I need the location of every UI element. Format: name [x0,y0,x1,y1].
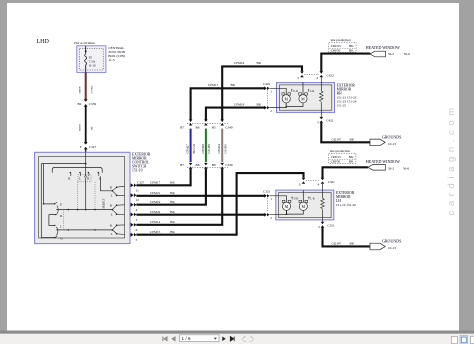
late production box bottom [329,149,356,164]
CJB inner dashed box [80,48,104,70]
heater wire to pin5 [322,209,324,221]
svg-text:CRD13: CRD13 [331,155,341,159]
heater resistor RH [319,91,323,101]
grounds pentagon RH [370,139,385,146]
wire CPM28 GN-BN (green) [205,129,207,162]
connector C321 pin5 chevrons [321,222,325,228]
svg-text:11: 11 [136,188,140,192]
svg-text:CRD15: CRD15 [331,44,341,48]
L contact [54,225,55,226]
motor M3 lead from pin1 [270,196,287,202]
svg-text:L-R: L-R [310,90,314,93]
svg-text:CPM19: CPM19 [150,200,161,204]
svg-text:151-19 151-26: 151-19 151-26 [336,203,356,207]
svg-text:B6: B6 [196,126,200,130]
svg-text:CPM14: CPM14 [150,220,161,224]
wire pin4 to heated window LH [323,167,368,178]
fuse F5 symbol [85,54,87,65]
svg-text:C339: C339 [225,163,232,167]
heated window pentagon top [370,51,385,57]
svg-text:late production: late production [330,149,350,153]
svg-text:BK: BK [170,220,175,224]
svg-text:B5: B5 [212,126,216,130]
switch internal feed wire [85,152,87,175]
svg-text:M: M [285,97,289,101]
connector C339 dashed line [187,166,228,168]
wire w1 CPM17 to blue riser [136,169,190,185]
wire pin5 to ground [321,123,370,143]
svg-text:BK: BK [170,200,175,204]
next page button [222,337,225,342]
RH mirror inner box [279,85,331,110]
svg-text:BU-GN: BU-GN [192,143,196,153]
LH mirror outer box [276,190,334,220]
svg-text:GROUNDS: GROUNDS [382,239,401,244]
rotate cw disabled icon [250,336,254,342]
svg-text:B8: B8 [196,163,200,167]
dropdown arrow [214,338,217,340]
wire fuse to box bottom [85,65,87,73]
svg-text:BK: BK [231,83,236,87]
wire CPM14 BK to RH pin3 [222,66,302,120]
motor M2 RH left-right [299,93,308,103]
first page button [162,337,164,342]
connector C339 B4 chevrons [84,99,88,102]
C321 top dashed link [306,180,321,182]
wire into fuse [85,46,87,54]
svg-text:C422: C422 [327,74,334,78]
U-D arc [57,206,59,215]
wire w5 CPM14 to gray riser [136,169,222,225]
svg-text:I: I [60,224,61,228]
svg-text:BK: BK [349,44,354,48]
motor M1 direction legend [291,89,292,92]
svg-text:BK: BK [350,137,355,141]
two-page layout icon selected [460,336,468,344]
wire right contact down to row [100,176,112,191]
select dashed vertical [63,210,65,230]
svg-text:C422: C422 [326,119,333,123]
svg-text:12: 12 [136,198,140,202]
prev page button [172,337,175,342]
rotate ccw disabled icon [243,336,247,342]
svg-text:CPM15: CPM15 [150,230,161,234]
D link wire [49,215,56,226]
page number field [180,335,220,342]
dashed coupler rect [78,175,91,182]
svg-text:L: L [111,232,113,236]
svg-text:BK: BK [350,241,355,245]
central junction box CJB outer box [77,46,106,73]
pivot feed wire [85,177,87,209]
RH mirror outer box [277,83,335,113]
svg-text:CPM14: CPM14 [234,61,245,65]
D contact [55,214,56,215]
wire into switch [85,149,87,152]
wire w3 CPM19 to green riser [136,169,206,205]
connector C321 pin1 chevrons [264,194,269,217]
svg-text:CPM24: CPM24 [150,210,161,214]
svg-text:B4: B4 [78,102,82,106]
connector C422 pin5 chevrons [320,117,324,123]
connector C422 pin1 chevrons [264,86,269,109]
wire SBB06 GY-RD (dark red) [85,72,87,101]
LH mirror inner box [279,192,331,217]
dot at U feed [43,203,45,205]
chevrons at switch outputs C327 [131,183,137,236]
connector C422 top pin3 chevrons [300,71,323,77]
toolbar bar [0,334,474,344]
motor M4 lead from pin3 [302,191,304,203]
svg-text:10-13: 10-13 [388,246,396,250]
late production box top [329,38,356,53]
motor M1 lead from pin1 [270,88,287,94]
U contact [55,202,58,204]
rocker bracket [52,167,102,172]
motor M3 LH up-down [282,200,291,210]
svg-text:BK: BK [349,49,354,53]
heater resistor LH [321,198,325,208]
svg-text:1 / 6: 1 / 6 [182,336,191,341]
svg-text:B7: B7 [180,126,184,130]
wire CPM27 BU-GN (blue) [190,129,192,162]
svg-text:CRP50: CRP50 [331,160,341,164]
wire pin4 to heated window [321,54,370,72]
svg-text:BK: BK [170,191,175,195]
svg-text:CPM17: CPM17 [208,83,219,87]
motor M3 direction legend [291,197,292,200]
svg-text:CPM19: CPM19 [234,102,245,106]
right row contacts: three commons with diagonals [112,187,116,233]
svg-text:GY-RD: GY-RD [90,86,93,94]
svg-text:CRP50: CRP50 [331,49,341,53]
motor M1 RH up-down [282,93,291,103]
C422 top dashed link [304,73,319,75]
svg-text:F: F [80,145,82,149]
svg-text:C339: C339 [89,102,97,106]
rail dots [68,209,70,211]
heated element wire from pin4 [322,184,324,198]
connector C327 F chevrons [84,142,88,145]
rail 1 [56,209,112,211]
svg-text:C422: C422 [263,82,270,86]
motor M2 lead bottom [286,103,303,108]
grounds pentagon LH [370,243,385,250]
svg-text:BK: BK [257,102,262,106]
svg-text:GN-BN: GN-BN [207,143,211,153]
rocker pivot tip [84,175,87,177]
svg-text:56-2: 56-2 [388,52,394,56]
svg-text:GD147: GD147 [332,137,342,141]
svg-text:CPM21: CPM21 [150,191,161,195]
wire SBB07 BK [85,107,87,144]
svg-text:late production: late production [331,38,351,42]
motor M2 direction legend [308,89,309,92]
connector C340 dashed line [187,122,228,124]
svg-text:BK: BK [170,210,175,214]
svg-text:CPM17: CPM17 [150,180,161,184]
svg-text:56-2: 56-2 [388,167,394,171]
svg-text:C321: C321 [328,180,335,184]
C321 left dashed link [266,198,268,212]
svg-text:SBB07: SBB07 [79,123,82,131]
svg-text:10-13: 10-13 [388,142,396,146]
svg-text:B7: B7 [180,163,184,167]
svg-text:cardiagn.com: cardiagn.com [446,103,457,215]
dashed link verticals [78,182,96,210]
svg-text:SELECT: SELECT [103,198,106,209]
svg-text:C327: C327 [137,180,144,184]
svg-text:B9: B9 [212,163,216,167]
page bottom shadow band [0,331,474,334]
svg-text:56-6: 56-6 [404,52,410,56]
heated element wire from pin4 [320,78,322,92]
svg-text:151-25: 151-25 [337,104,347,108]
svg-text:U-D: U-D [293,90,298,93]
last page button [230,337,234,342]
internal horizontal wire [41,163,85,165]
svg-text:L-R: L-R [310,197,314,200]
svg-text:BK: BK [349,160,354,164]
exterior mirror control switch outer box [35,152,130,243]
six stub dots and letters R/L [116,186,118,234]
motor M3 lead bottom from pin2 [270,210,287,214]
svg-text:BK: BK [349,155,354,159]
wire CPM34 GY-BN (gray) [221,129,223,162]
motor M1 lead bottom from pin2 [270,103,287,108]
wire w4 CPM24 to LH pin2 [136,214,264,216]
svg-text:L: L [111,194,113,198]
svg-text:11-5: 11-5 [108,58,115,62]
connector C339 chevrons on risers [189,163,224,169]
L-G arc [56,227,58,236]
switch inner box [39,157,125,239]
svg-text:C321: C321 [327,224,334,228]
motor M4 LH left-right [299,200,308,210]
rail 2 [56,229,112,231]
wire CPM19 BK to RH pin2 [206,108,265,120]
svg-text:BK: BK [170,230,175,234]
svg-text:GD147: GD147 [332,241,342,245]
single page layout icon [451,337,457,344]
connector C321 top pin3 chevrons [302,178,325,184]
svg-text:151-10: 151-10 [132,169,143,173]
G contact [54,237,55,238]
svg-text:SBB06: SBB06 [79,86,82,94]
svg-text:HEATED WINDOW: HEATED WINDOW [366,159,400,164]
svg-text:BK: BK [257,61,262,65]
svg-text:L: L [79,177,81,181]
svg-text:O-10: O-10 [89,63,96,67]
wire CPM17 BK top to RH pin1 [191,88,265,120]
motor M4 lead bottom [287,210,304,214]
motor M4 direction legend [308,197,309,200]
rocker contacts [69,173,72,176]
svg-text:CPM34: CPM34 [217,144,221,154]
internal left wire to U [44,164,55,204]
heater wire to pin5 [320,102,322,117]
svg-text:C340: C340 [225,126,232,130]
motor M2 lead from pin3 [302,83,303,95]
junction dot above fuse [85,50,87,52]
svg-text:HEATED WINDOW: HEATED WINDOW [366,45,400,50]
internal left wire to G [41,164,55,238]
svg-text:56-6: 56-6 [403,167,409,171]
stub wires to box edge [117,186,125,234]
wire w2 CPM21 to LH pin1 [136,195,264,197]
heated window pentagon bottom [368,165,385,171]
svg-text:CPM27: CPM27 [186,144,190,154]
connector C340 chevrons [189,120,224,126]
continuous layout icon (cut off) [471,336,474,343]
svg-text:L: L [111,212,113,216]
C422 left dashed link [266,91,268,106]
svg-text:GY-BN: GY-BN [223,143,227,153]
junction dot [85,163,87,165]
svg-text:C327: C327 [89,145,97,149]
svg-text:Hot at all times: Hot at all times [74,41,95,45]
wire w6 CPM15 to LH pin3 [136,173,303,235]
svg-text:BK: BK [170,180,175,184]
svg-text:LHD: LHD [37,39,50,45]
svg-text:CPM28: CPM28 [201,144,205,154]
svg-text:U-D: U-D [294,197,299,200]
svg-text:C321: C321 [263,189,270,193]
svg-text:GROUNDS: GROUNDS [382,135,401,140]
wire pin5 to ground LH [323,228,370,247]
svg-text:BK: BK [90,126,93,130]
